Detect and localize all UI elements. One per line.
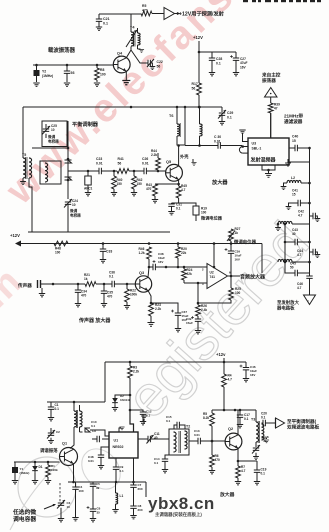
wire U1 supply [130,410,134,432]
svg-text:0.01: 0.01 [194,433,200,437]
IC U3 SBL-1 mixer [248,138,289,165]
varactor D6 [65,177,72,180]
svg-text:470: 470 [107,295,113,299]
varactor C22 [131,50,163,68]
svg-text:10: 10 [72,203,76,207]
svg-text:0.1: 0.1 [261,472,266,476]
svg-text:150: 150 [137,182,143,186]
capacitor C43 [284,228,310,245]
inductor L3 [277,221,310,227]
svg-text:40: 40 [292,232,296,236]
ground C28 [209,73,215,76]
svg-text:35: 35 [97,511,101,515]
ground R8 [94,83,100,86]
varactor C29 [218,107,233,121]
svg-text:22k: 22k [181,251,187,255]
resistor R48 [54,241,68,255]
capacitor C17 [237,410,250,424]
svg-text:16V: 16V [235,258,240,262]
svg-text:传声器: 传声器 [17,282,32,289]
ground T3 secondary [262,438,270,443]
capacitor C9 [92,429,109,442]
svg-text:T3: T3 [251,418,255,422]
wire feedback [213,244,216,269]
svg-text:电容器: 电容器 [70,213,81,218]
svg-text:微调: 微调 [69,208,78,213]
svg-text:R41: R41 [118,157,124,161]
wire bottom rail [105,358,246,363]
capacitor C39 [225,244,242,277]
wire R4 [223,362,225,374]
wire oscillator bus [33,64,113,67]
ground T5 [20,182,26,185]
svg-text:音频放大器: 音频放大器 [240,274,266,281]
label amplifier bottom [219,491,235,498]
svg-text:200: 200 [138,508,143,512]
ground L1 [112,510,118,513]
capacitor C36 [109,271,135,288]
resistor R46 [139,247,152,268]
svg-text:0.1: 0.1 [154,461,159,465]
svg-text:0.01: 0.01 [214,139,221,143]
svg-text:10: 10 [51,128,55,132]
resistor R21 [84,273,112,286]
svg-text:外壳: 外壳 [180,153,189,160]
svg-text:8.2k: 8.2k [203,416,209,420]
ground C4 [72,518,78,521]
capacitor C23 [96,157,117,174]
wire filter chain [68,170,99,173]
trimmer box C25 [42,121,67,147]
signal source triangle [265,88,278,98]
ground R42 [131,193,137,196]
svg-text:2.2k: 2.2k [155,307,161,311]
trimmer R19 [179,203,207,221]
ground R7 [235,482,241,485]
ground C93 [64,83,70,86]
ground C35 [101,304,107,307]
svg-text:U1: U1 [114,439,119,443]
ground C17 [237,425,243,428]
svg-text:+12V: +12V [193,35,203,40]
svg-text:C 30: C 30 [214,135,221,139]
resistor R44 [151,149,160,172]
shield coil L5 [40,161,61,184]
wire op-amp plus input [184,282,207,285]
ground C32 [195,331,201,334]
trimmer C3 [57,500,71,509]
microphone [17,280,54,289]
label 21MHz filter [284,113,304,126]
svg-text:C40: C40 [292,135,298,139]
ground C22 [150,63,156,70]
svg-text:NE602: NE602 [113,445,124,449]
wire rail drop [261,244,263,274]
svg-text:2.2k: 2.2k [133,370,139,374]
svg-text:100: 100 [100,72,106,76]
wire U3 input pins loop [239,145,248,153]
svg-text:C28: C28 [216,57,222,61]
svg-text:200: 200 [138,487,143,491]
ground R40 [111,193,117,196]
svg-text:C29: C29 [227,111,233,115]
svg-text:15uF: 15uF [186,321,193,325]
svg-text:1N4148: 1N4148 [120,398,131,402]
capacitor C1 [48,402,59,417]
label amplifier [211,178,228,186]
svg-text:0.1: 0.1 [109,275,114,279]
ground U1 right [141,416,147,424]
svg-text:Q4: Q4 [117,52,123,56]
ground R23 [147,323,154,327]
svg-text:+12V用于探测/发射: +12V用于探测/发射 [179,10,225,18]
ground R1 [45,481,51,484]
svg-text:0.1: 0.1 [176,207,181,211]
svg-text:741: 741 [210,275,216,279]
svg-text:主调谐器(安装在底板上): 主调谐器(安装在底板上) [155,511,202,518]
output triangle to modulator [276,418,285,428]
op-amp U2 [202,264,231,289]
svg-text:4.7: 4.7 [297,253,302,257]
svg-text:微调电位器: 微调电位器 [233,239,257,246]
ground Y1 [12,481,18,484]
ground D2 [112,405,118,411]
wire vfo out [95,481,146,484]
wire mid vertical [184,107,186,145]
output triangle to PA board [304,295,316,305]
transistor Q3 [135,271,151,292]
label balanced modulator [72,120,99,128]
svg-text:通滤波器: 通滤波器 [284,118,303,125]
svg-text:放大器: 放大器 [211,178,228,186]
svg-text:0.1: 0.1 [261,416,266,420]
svg-text:2.2k: 2.2k [151,153,157,157]
wire plus node [197,283,200,304]
capacitor C93 [64,65,75,82]
ground D1 [32,481,38,484]
svg-text:470: 470 [215,458,221,462]
wire box left edge [22,107,24,158]
label to balanced modulator board [287,418,320,431]
wire osc supply [47,401,105,404]
capacitor C34 [75,284,87,303]
wire Q2 base [211,440,225,443]
transformer T2 [169,425,190,456]
capacitor C45 [285,262,310,277]
varactor D5 [65,160,72,163]
svg-text:载波振荡器: 载波振荡器 [48,46,76,54]
label carrier-oscillator [48,46,76,54]
capacitor C47 [240,362,258,378]
label +12v bottom [216,352,226,357]
wire +12V vertical [198,41,201,83]
svg-text:C21: C21 [103,17,110,21]
transformer T5 [22,153,32,181]
label main tuner caption [155,511,202,518]
resistor R22 [125,284,138,305]
svg-text:SBL-1: SBL-1 [252,147,262,151]
svg-text:任选的微: 任选的微 [12,508,36,516]
ground C33 [100,260,106,263]
wire Q2 collector [237,410,239,434]
svg-text:93: 93 [71,71,75,75]
IC U1 NE602 [109,432,138,458]
ground T4 secondary [138,49,145,52]
svg-text:4.7: 4.7 [228,378,233,382]
ground Y2 [33,83,39,86]
svg-text:2.4k: 2.4k [201,308,207,312]
svg-text:0.1: 0.1 [227,115,232,119]
capacitor C20 [261,412,276,427]
wire Q2 emitter [238,448,257,461]
svg-text:Y2: Y2 [42,70,46,74]
svg-text:双频滤波电路板: 双频滤波电路板 [287,424,320,431]
capacitor C38 [149,252,207,270]
svg-text:10: 10 [67,505,71,509]
resistor R42 [132,171,143,192]
svg-text:0.01: 0.01 [96,161,103,165]
resistor R24 [182,266,193,283]
trimmer capacitor C25 [42,124,59,144]
resistor R4 [222,374,233,411]
capacitor C28 [209,52,223,72]
label trimmer pot 2 [233,239,257,246]
ground U3 bottom [265,174,272,178]
capacitor C7 [130,458,143,506]
inductor L4 [278,259,310,263]
wire Q2 rail [212,409,256,412]
capacitor C27 [230,52,247,72]
svg-text:100: 100 [201,211,207,215]
resistor R3 [128,362,140,396]
label +12V detect/transmit [179,10,225,18]
svg-text:C2: C2 [56,430,60,434]
resistor R20 [176,244,187,268]
wire box bottom [28,231,170,233]
resistor R7 [236,460,246,481]
capacitor C26 [142,157,166,174]
ground C12 [140,422,146,425]
transformer T3 [251,410,264,443]
capacitor C41 [289,189,310,207]
svg-text:(1MHz): (1MHz) [42,74,53,78]
capacitor C44 [297,249,317,257]
svg-text:+12v: +12v [216,352,226,357]
svg-text:100: 100 [79,489,84,493]
ground C48 [98,466,104,469]
svg-text:16V: 16V [240,65,247,69]
ground C1 [48,418,54,421]
label +12V mic [10,233,20,238]
ground C34 [75,304,81,307]
svg-text:0.1: 0.1 [166,419,171,423]
svg-text:T5: T5 [22,153,26,157]
label +12V rail [193,35,203,40]
inductor L1 [116,482,124,509]
svg-text:56: 56 [157,64,161,68]
transformer T1 [70,402,82,449]
svg-text:40: 40 [154,436,158,440]
svg-text:100k: 100k [51,468,58,472]
svg-text:Q1: Q1 [62,442,67,446]
svg-text:微调电位器: 微调电位器 [200,215,223,222]
wire dashed tuning link [59,483,61,502]
label audio amplifier [240,274,266,281]
svg-text:R5: R5 [142,4,146,8]
svg-text:1.2k: 1.2k [139,251,145,255]
wire vfo corner [145,482,147,497]
label ybx8.cn [148,494,215,513]
svg-text:0.1: 0.1 [103,22,108,26]
svg-text:调谐振荡: 调谐振荡 [40,447,58,454]
svg-text:4.7: 4.7 [181,188,186,192]
svg-text:微调: 微调 [47,134,56,139]
resistor R45 [172,184,188,203]
label optional trimmer [12,504,56,523]
capacitor C35 [101,284,113,303]
svg-text:+12V: +12V [10,233,20,238]
svg-text:4.7: 4.7 [298,214,303,218]
svg-text:470: 470 [81,294,87,298]
transistor Q2 [225,427,242,450]
capacitor C8 [130,504,143,515]
ground C8 [130,516,136,519]
svg-text:C9: C9 [92,429,96,433]
wire Q5 emitter [155,180,180,186]
svg-text:470: 470 [146,187,152,191]
capacitor C12 [129,395,152,421]
svg-text:1k: 1k [84,277,88,281]
svg-text:振荡器: 振荡器 [262,77,276,84]
transistor Q5 [166,160,183,181]
ground R6 [209,471,215,474]
svg-text:AFC1: AFC1 [84,187,93,191]
wire rail left drop [104,362,106,402]
inductor L6 [200,107,203,146]
svg-text:发射混频器: 发射混频器 [250,157,277,164]
svg-text:L2: L2 [291,176,295,180]
ground C41 [286,207,292,210]
capacitor C48 [88,447,109,465]
svg-text:16V: 16V [158,260,163,264]
ground C6 [90,519,96,522]
ground C27 [233,73,239,76]
capacitor C21 [96,14,110,27]
wire Q3 emitter [148,291,152,305]
svg-text:16V: 16V [250,373,255,377]
capacitor C14 [154,455,169,469]
wire +12V branch [199,51,236,53]
label shield [180,153,197,165]
svg-text:电容器: 电容器 [48,139,59,144]
svg-text:0.01: 0.01 [88,459,94,463]
capacitor C31 [168,203,182,212]
svg-text:0.1: 0.1 [244,417,249,421]
trimmer capacitor C24 [64,199,81,232]
crystal Y2 [34,65,54,82]
capacitor C32 [186,316,201,330]
svg-text:调电容器: 调电容器 [13,515,36,523]
ground microphone [39,288,45,297]
svg-text:0.1: 0.1 [216,61,221,65]
trimmer C11 [138,432,169,444]
wire T2 to C13 [189,440,198,442]
svg-text:D1: D1 [39,465,43,469]
svg-text:放大器: 放大器 [219,491,235,498]
resistor R43 [146,183,157,199]
wire Q5 collector [177,144,180,166]
wire Q1 base [14,461,60,464]
svg-text:平衡调制器: 平衡调制器 [72,120,99,128]
wire R17 to bus [198,95,200,107]
svg-text:U3: U3 [252,142,257,146]
transformer T6 [169,107,185,145]
resistor R26 [196,303,208,316]
ground C14 [162,470,168,473]
svg-text:150: 150 [117,182,123,186]
svg-text:56: 56 [118,161,122,165]
resistor R25 [198,276,241,303]
transistor Q1 [60,442,78,466]
svg-text:56: 56 [192,86,196,90]
svg-text:0.1: 0.1 [55,407,60,411]
svg-text:50: 50 [290,266,294,270]
resistor R17 [192,82,202,95]
ground C47 [243,379,249,382]
capacitor C13 [194,429,213,444]
wire op-amp output [228,275,241,278]
svg-text:100k: 100k [130,293,137,297]
capacitor C4 [72,482,84,517]
svg-text:T6: T6 [169,114,173,118]
svg-text:L1: L1 [120,494,124,498]
svg-text:15: 15 [292,139,296,143]
ground C44 [315,255,321,258]
svg-text:0.1: 0.1 [120,469,125,473]
svg-text:C26: C26 [142,157,148,161]
svg-text:0.1: 0.1 [91,424,96,428]
trimmer C2 [47,428,60,444]
resistor R5 [141,4,152,16]
ground C42 [315,219,321,222]
wire U3 bottom pins [262,165,275,173]
diode D1 [32,462,43,480]
wire ladder left link [284,223,287,262]
wire B to mixer [185,144,218,147]
resistor R41 [117,157,144,173]
label oscillator [40,447,58,454]
ground C3 [58,508,64,522]
wire mic rail [15,241,262,247]
resistor R23 [149,303,162,322]
svg-text:4.7: 4.7 [241,469,246,473]
ground C37 [175,329,181,332]
capacitor C42 [298,210,317,220]
ground U3 top-left [239,130,245,135]
label to transmit amplifier board [276,299,300,311]
trimmer R27 [227,227,241,244]
wire U3 output [289,147,295,149]
svg-text:470: 470 [142,8,148,12]
wire top (C21 to T4) [99,13,141,15]
svg-text:C23: C23 [96,157,102,161]
wire varactor column [67,121,70,199]
ground Q4 emitter [122,81,130,85]
svg-text:100: 100 [235,291,241,295]
capacitor C33 [100,244,113,260]
label mic amplifier [78,317,111,324]
svg-text:4.7: 4.7 [297,286,302,290]
